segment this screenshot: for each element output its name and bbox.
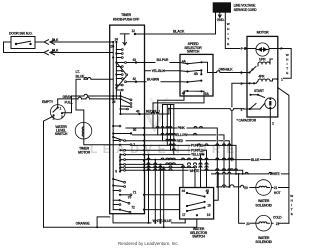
svg-text:WHITE-BLUE: WHITE-BLUE	[153, 219, 173, 223]
svg-text:BLK: BLK	[52, 48, 59, 52]
wire BLK upper to timer	[50, 41, 110, 43]
timer contacts 137-142 extra	[113, 140, 119, 142]
svg-text:SWITCH: SWITCH	[55, 132, 68, 136]
water selector contacts	[182, 189, 211, 217]
svg-text:I: I	[287, 62, 288, 66]
wire BLUE	[145, 159, 271, 161]
svg-text:* CAPACITOR: * CAPACITOR	[237, 119, 257, 123]
wire white pin down to motor P	[225, 13, 247, 50]
svg-text:SOLENOID: SOLENOID	[255, 204, 272, 208]
svg-text:START: START	[254, 89, 264, 93]
svg-text:BLK: BLK	[52, 38, 59, 42]
svg-text:SWITCH: SWITCH	[187, 50, 200, 54]
svg-text:COLD: COLD	[273, 215, 282, 219]
svg-text:BU-BRN: BU-BRN	[147, 77, 160, 81]
svg-text:WHITE: WHITE	[270, 172, 281, 176]
label WHITE vertical cord	[227, 22, 230, 46]
svg-text:PURPLE: PURPLE	[191, 144, 204, 148]
svg-text:BLACK: BLACK	[173, 29, 185, 33]
wire WHITE right to valves	[212, 174, 289, 223]
wire RED-BLU from 49	[140, 109, 169, 114]
wire hot 20	[217, 186, 256, 189]
wire motor white diagonal down	[278, 88, 289, 174]
timer box	[110, 25, 145, 214]
svg-text:4PR: 4PR	[259, 74, 266, 78]
svg-text:UPR: UPR	[259, 58, 266, 62]
svg-text:GRAY: GRAY	[63, 95, 73, 99]
svg-text:E: E	[286, 71, 288, 75]
plug pins / gnd	[218, 13, 221, 18]
svg-text:W: W	[227, 22, 230, 26]
wire row 164	[145, 164, 184, 187]
svg-text:ORN-BLK: ORN-BLK	[219, 67, 234, 71]
svg-text:YELLOW: YELLOW	[174, 133, 188, 137]
svg-text:27: 27	[110, 44, 114, 48]
timer contacts 190-212 extra	[113, 191, 119, 205]
svg-text:E: E	[291, 212, 293, 216]
svg-text:20: 20	[244, 186, 248, 190]
svg-text:BLUE: BLUE	[76, 74, 86, 78]
wire ORN-BLK selector to motor 5	[213, 72, 243, 74]
door switch DS1	[11, 37, 35, 49]
label WHITE vertical motor	[286, 53, 289, 75]
svg-text:72: 72	[131, 205, 135, 209]
wire cold feed down	[239, 174, 245, 223]
svg-text:W: W	[286, 53, 289, 57]
svg-text:DOOR SW. N.O.: DOOR SW. N.O.	[9, 32, 32, 36]
wire WHITE-BLUE	[113, 214, 185, 223]
service cord plug	[213, 2, 231, 12]
wire BLK lower to timer	[50, 52, 110, 54]
ORANGE wire bottom	[44, 226, 197, 228]
svg-text:BLUE: BLUE	[251, 158, 260, 162]
connector chevrons lower	[44, 50, 55, 55]
label white vertical valves	[290, 194, 293, 216]
svg-text:I: I	[291, 203, 292, 207]
wire BU-PUR timer 43 to selector	[136, 62, 180, 64]
svg-text:WHITE: WHITE	[190, 169, 201, 173]
mesh crossing bumps	[147, 113, 272, 174]
speed selector switch box	[180, 54, 213, 96]
svg-text:47: 47	[182, 92, 186, 96]
selector stubs down	[185, 219, 197, 227]
timer contacts column (approximate texture)	[110, 38, 144, 214]
wire cold 21	[271, 222, 289, 224]
svg-text:YEL-BLK: YEL-BLK	[152, 69, 166, 73]
wire PINK	[126, 128, 217, 187]
svg-text:KNOB-PUSH OFF: KNOB-PUSH OFF	[113, 17, 140, 21]
wire timer71 to selector	[145, 194, 180, 196]
wire YELLOW	[133, 135, 225, 187]
svg-text:30: 30	[133, 128, 137, 132]
svg-text:LINE VOLTAGE: LINE VOLTAGE	[234, 3, 257, 7]
stub orange to timer left	[97, 217, 110, 227]
speed selector contacts	[180, 60, 213, 96]
svg-text:PINK: PINK	[178, 126, 186, 130]
wire gray from WLS top to timer	[58, 99, 110, 107]
wire YEL-BLK to selector	[145, 70, 181, 72]
cold solenoid	[256, 215, 272, 231]
wire timer72 to selector	[145, 209, 180, 211]
svg-text:71: 71	[133, 190, 137, 194]
svg-text:49: 49	[136, 109, 140, 113]
wire WLS terminal2 down to orange	[44, 116, 54, 227]
svg-text:I: I	[228, 32, 229, 36]
hot solenoid	[256, 180, 272, 196]
svg-text:WATER: WATER	[258, 236, 270, 240]
timer motor TM	[75, 122, 92, 139]
wire selector 18 up to white	[214, 174, 219, 200]
svg-text:44: 44	[182, 189, 186, 193]
svg-text:TIMER: TIMER	[121, 13, 131, 17]
svg-text:MOTOR: MOTOR	[78, 150, 91, 154]
svg-text:SOLENOID: SOLENOID	[255, 240, 272, 244]
svg-text:T: T	[227, 37, 229, 41]
motor start winding	[265, 98, 276, 109]
contacts 26	[112, 95, 114, 97]
svg-text:FULL: FULL	[65, 101, 74, 105]
motor protector	[256, 43, 269, 56]
svg-text:ORANGE: ORANGE	[76, 222, 91, 226]
wire lt blue from timer to timer motor	[76, 79, 110, 122]
timer cam T bar	[120, 34, 129, 45]
timer left bus	[112, 42, 114, 210]
wire PURPLE 1	[132, 145, 236, 174]
wire door switch upper to connector	[35, 41, 43, 43]
motor box	[247, 36, 278, 117]
wire mesh verticals	[149, 100, 174, 227]
wire WHITE mid	[145, 170, 243, 174]
wire door switch loop lower	[4, 42, 44, 53]
svg-text:21: 21	[274, 186, 278, 190]
connector chevrons upper	[44, 40, 55, 45]
wire BU-BRN timer 42 to selector	[136, 81, 180, 83]
svg-text:26: 26	[112, 100, 116, 104]
svg-text:YELLOW: YELLOW	[191, 153, 205, 157]
wire PURPLE 2	[145, 150, 207, 187]
svg-text:GND.: GND.	[217, 18, 225, 22]
svg-text:PURPLE: PURPLE	[191, 148, 204, 152]
wire motor 2 down	[269, 109, 271, 160]
svg-text:WATER: WATER	[258, 199, 270, 203]
wire row 167	[145, 167, 196, 187]
svg-text:T: T	[291, 208, 293, 212]
wire black pin down	[215, 13, 217, 34]
svg-text:17: 17	[182, 213, 186, 217]
svg-text:21: 21	[276, 222, 280, 226]
svg-text:19: 19	[207, 213, 211, 217]
svg-text:70: 70	[128, 196, 132, 200]
svg-text:SWITCH: SWITCH	[192, 235, 205, 239]
wire YELLOW 2	[145, 155, 205, 188]
wire cold 20	[251, 222, 256, 224]
water level switch	[50, 105, 65, 121]
wire RED	[126, 141, 230, 187]
wire motor3 feed vertical	[232, 83, 243, 160]
water selector switch box	[180, 188, 214, 220]
wire from WLS terminal 3 to timer	[63, 96, 110, 113]
wire hot 21	[271, 187, 289, 189]
svg-text:W: W	[290, 194, 293, 198]
svg-text:HOT: HOT	[274, 191, 281, 195]
svg-text:12: 12	[132, 29, 136, 33]
svg-text:MOTOR: MOTOR	[257, 30, 270, 34]
svg-text:EMPTY: EMPTY	[42, 100, 54, 104]
lower contact cluster	[121, 150, 145, 170]
svg-text:T: T	[286, 67, 288, 71]
timer contacts mid extra	[121, 96, 131, 109]
svg-text:BU-PUR: BU-PUR	[157, 58, 170, 62]
svg-text:E: E	[227, 42, 229, 46]
wire BLACK from 12 to cord	[135, 33, 216, 35]
svg-text:18: 18	[207, 203, 211, 207]
svg-text:Rendered by LeadVenture, Inc.: Rendered by LeadVenture, Inc.	[118, 241, 179, 246]
selector bottom drops	[153, 96, 204, 103]
wire motor4 feed	[169, 108, 244, 110]
svg-text:SERVICE CORD: SERVICE CORD	[234, 8, 258, 12]
svg-text:20: 20	[246, 222, 250, 226]
svg-text:RED: RED	[177, 139, 184, 143]
wire timer motor bottom to timer terminal 7	[84, 139, 120, 145]
